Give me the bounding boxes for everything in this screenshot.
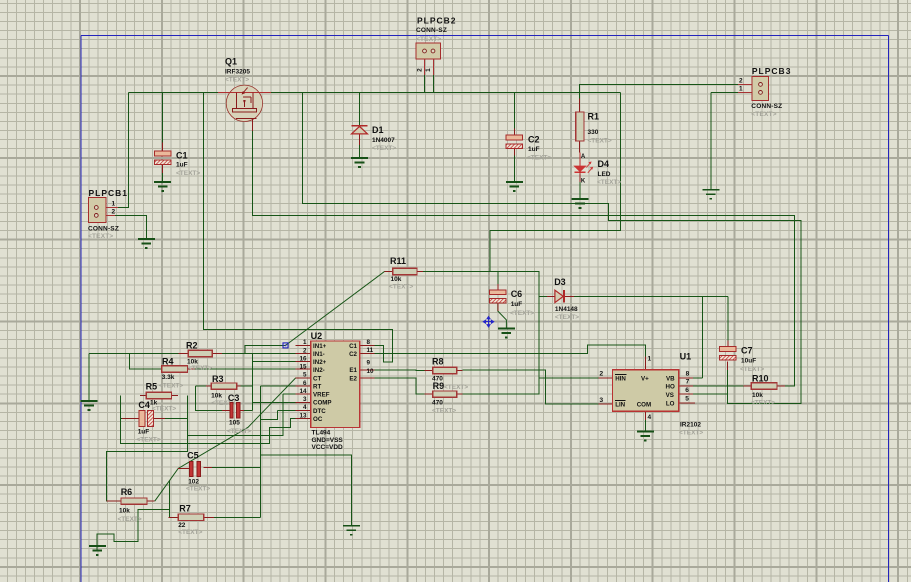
capacitor C4 bbox=[139, 411, 153, 427]
wire bbox=[513, 156, 515, 183]
svg-text:R8: R8 bbox=[432, 356, 444, 366]
svg-text:<TEXT>: <TEXT> bbox=[555, 314, 579, 321]
svg-text:OC: OC bbox=[313, 416, 323, 423]
svg-text:5: 5 bbox=[303, 372, 307, 379]
connector PLPCB1 bbox=[88, 198, 118, 223]
wire bbox=[277, 409, 295, 411]
pin stubs bbox=[107, 99, 785, 518]
wire bbox=[693, 393, 728, 395]
svg-text:DTC: DTC bbox=[313, 408, 326, 415]
svg-text:16: 16 bbox=[299, 356, 307, 363]
svg-text:IRF3205: IRF3205 bbox=[225, 69, 250, 76]
U2 left pin numbers bbox=[299, 339, 307, 419]
svg-text:6: 6 bbox=[685, 387, 689, 394]
svg-text:PLPCB1: PLPCB1 bbox=[89, 188, 129, 198]
svg-text:R11: R11 bbox=[390, 256, 406, 266]
ground bbox=[351, 158, 368, 167]
svg-text:<TEXT>: <TEXT> bbox=[389, 284, 413, 291]
wire bbox=[162, 92, 164, 142]
capacitor C1 bbox=[154, 151, 170, 164]
svg-text:1: 1 bbox=[739, 86, 743, 93]
svg-text:<TEXT>: <TEXT> bbox=[527, 155, 551, 162]
resistor R10 bbox=[751, 383, 777, 389]
svg-text:R5: R5 bbox=[146, 382, 158, 392]
svg-text:1uF: 1uF bbox=[176, 162, 188, 169]
wire bbox=[251, 354, 253, 411]
svg-text:VB: VB bbox=[666, 376, 675, 383]
IC U1 (IR2102) bbox=[613, 370, 679, 411]
svg-text:1: 1 bbox=[648, 356, 652, 363]
resistor R9 bbox=[433, 391, 457, 397]
svg-text:105: 105 bbox=[229, 419, 240, 426]
wire bbox=[196, 386, 222, 410]
svg-text:<TEXT>: <TEXT> bbox=[178, 529, 202, 536]
svg-text:2: 2 bbox=[739, 77, 743, 84]
svg-text:A: A bbox=[581, 154, 586, 160]
wire bbox=[261, 455, 352, 526]
svg-text:8: 8 bbox=[686, 370, 690, 377]
svg-text:<TEXT>: <TEXT> bbox=[118, 516, 142, 523]
wire bbox=[286, 271, 385, 345]
capacitor C6 bbox=[490, 290, 506, 303]
resistor R4 bbox=[162, 366, 188, 372]
svg-text:10k: 10k bbox=[391, 276, 402, 283]
ground bbox=[81, 401, 98, 410]
wire bbox=[169, 481, 171, 518]
svg-text:1uF: 1uF bbox=[138, 428, 150, 435]
svg-text:R10: R10 bbox=[752, 373, 769, 383]
svg-text:330: 330 bbox=[588, 129, 599, 136]
wire bbox=[165, 417, 188, 419]
svg-text:<TEXT>: <TEXT> bbox=[444, 384, 468, 391]
svg-text:<TEXT>: <TEXT> bbox=[510, 310, 534, 317]
wire bbox=[375, 345, 646, 357]
wire bbox=[89, 353, 179, 355]
wire bbox=[283, 393, 296, 395]
ground bbox=[154, 182, 171, 191]
wire bbox=[727, 370, 729, 394]
wire bbox=[375, 369, 425, 372]
svg-text:C1: C1 bbox=[176, 151, 188, 161]
wire bbox=[252, 361, 295, 363]
svg-text:CONN-SZ: CONN-SZ bbox=[751, 103, 782, 110]
svg-text:K: K bbox=[581, 178, 586, 184]
ground bbox=[343, 526, 360, 535]
wire bbox=[121, 417, 122, 419]
wire bbox=[245, 345, 286, 353]
svg-text:IN1+: IN1+ bbox=[313, 343, 327, 350]
svg-text:PLPCB2: PLPCB2 bbox=[417, 16, 457, 26]
svg-text:7: 7 bbox=[686, 378, 690, 385]
svg-text:1uF: 1uF bbox=[511, 301, 523, 308]
U1 pin numbers bbox=[599, 356, 689, 422]
resistor R7 bbox=[178, 514, 204, 520]
svg-text:COM: COM bbox=[637, 402, 651, 409]
svg-text:D4: D4 bbox=[598, 159, 610, 169]
wire bbox=[359, 92, 361, 125]
PLPCB3 pin numbers bbox=[739, 77, 743, 92]
svg-text:<TEXT>: <TEXT> bbox=[679, 429, 703, 436]
svg-text:<TEXT>: <TEXT> bbox=[159, 383, 183, 390]
svg-text:10k: 10k bbox=[211, 392, 222, 399]
svg-text:LO: LO bbox=[666, 400, 675, 407]
ground bbox=[498, 329, 515, 338]
ground bbox=[637, 432, 654, 441]
svg-text:COMP: COMP bbox=[313, 400, 332, 407]
wire bbox=[498, 303, 507, 329]
wire bbox=[155, 378, 296, 501]
svg-text:C4: C4 bbox=[138, 400, 150, 410]
svg-text:10uF: 10uF bbox=[741, 358, 756, 365]
svg-text:1uF: 1uF bbox=[528, 146, 540, 153]
wire bbox=[115, 215, 146, 239]
wire bbox=[188, 368, 296, 370]
svg-text:10k: 10k bbox=[119, 508, 130, 515]
svg-text:1: 1 bbox=[425, 68, 432, 72]
PLPCB2 pin numbers bbox=[417, 68, 433, 72]
wire bbox=[785, 385, 795, 387]
wire bbox=[128, 91, 620, 93]
svg-text:IN2+: IN2+ bbox=[313, 359, 327, 366]
svg-text:<TEXT>: <TEXT> bbox=[137, 437, 161, 444]
svg-text:470: 470 bbox=[432, 400, 443, 407]
capacitor C5 bbox=[189, 461, 200, 476]
svg-text:D3: D3 bbox=[554, 277, 566, 287]
IC U2 (TL494) bbox=[311, 341, 360, 428]
transistor Q1 bbox=[218, 85, 271, 131]
svg-text:LIN: LIN bbox=[615, 402, 625, 409]
resistor R2 bbox=[188, 350, 212, 356]
wire bbox=[252, 401, 295, 403]
wire bbox=[359, 145, 361, 158]
svg-text:14: 14 bbox=[299, 388, 307, 395]
svg-text:C2: C2 bbox=[349, 351, 357, 358]
svg-text:<TEXT>: <TEXT> bbox=[751, 111, 776, 118]
ground bbox=[572, 199, 589, 208]
wire bbox=[423, 271, 539, 378]
svg-text:3: 3 bbox=[599, 397, 603, 404]
node U2 pin 1 (blue square) bbox=[283, 343, 288, 348]
wire bbox=[240, 385, 252, 387]
svg-text:Q1: Q1 bbox=[225, 57, 237, 67]
svg-text:<TEXT>: <TEXT> bbox=[740, 366, 764, 373]
svg-text:CONN-SZ: CONN-SZ bbox=[88, 225, 119, 232]
ground bbox=[89, 546, 106, 555]
svg-text:VCC=VDD: VCC=VDD bbox=[312, 444, 344, 451]
svg-text:R1: R1 bbox=[588, 112, 600, 122]
svg-text:R7: R7 bbox=[179, 503, 191, 513]
svg-text:IN1-: IN1- bbox=[313, 351, 325, 358]
svg-text:E2: E2 bbox=[349, 375, 357, 382]
U1 pin names bbox=[615, 375, 675, 409]
svg-text:TL494: TL494 bbox=[312, 430, 331, 437]
wire bbox=[463, 370, 599, 404]
wire bbox=[580, 84, 738, 92]
svg-text:CT: CT bbox=[313, 375, 321, 382]
svg-text:IN2-: IN2- bbox=[313, 367, 325, 374]
svg-text:LED: LED bbox=[598, 171, 611, 178]
wire bbox=[644, 420, 646, 432]
svg-text:3.3k: 3.3k bbox=[162, 374, 175, 381]
svg-text:13: 13 bbox=[299, 412, 307, 419]
wire bbox=[513, 92, 515, 128]
svg-text:<TEXT>: <TEXT> bbox=[225, 77, 249, 84]
resistor R1 bbox=[576, 112, 584, 141]
svg-text:C2: C2 bbox=[528, 135, 540, 145]
svg-text:R4: R4 bbox=[162, 356, 174, 366]
svg-text:8: 8 bbox=[367, 339, 371, 346]
svg-text:C3: C3 bbox=[228, 393, 240, 403]
svg-text:2: 2 bbox=[303, 347, 307, 354]
svg-text:2: 2 bbox=[599, 370, 603, 377]
svg-text:10: 10 bbox=[367, 368, 375, 375]
capacitor C2 bbox=[506, 135, 522, 148]
capacitor C7 bbox=[720, 347, 736, 360]
wire bbox=[188, 394, 284, 435]
wire bbox=[303, 92, 802, 403]
node marker (blue cross) bbox=[483, 317, 493, 327]
wire bbox=[196, 385, 207, 387]
svg-text:<TEXT>: <TEXT> bbox=[186, 486, 210, 493]
svg-text:PLPCB3: PLPCB3 bbox=[752, 66, 792, 76]
svg-text:D1: D1 bbox=[372, 125, 384, 135]
wire bbox=[88, 354, 90, 402]
wire bbox=[701, 296, 703, 378]
svg-text:<TEXT>: <TEXT> bbox=[188, 365, 212, 372]
svg-text:VS: VS bbox=[666, 392, 674, 399]
svg-text:U2: U2 bbox=[311, 331, 323, 341]
wire bbox=[244, 409, 253, 411]
wire bbox=[121, 396, 296, 444]
diode D1 bbox=[352, 126, 368, 134]
wire bbox=[693, 385, 743, 387]
svg-text:R6: R6 bbox=[121, 487, 133, 497]
wire bbox=[433, 75, 435, 92]
wire bbox=[261, 385, 296, 387]
svg-text:<TEXT>: <TEXT> bbox=[751, 400, 775, 407]
svg-text:2: 2 bbox=[112, 209, 116, 216]
U2 right pin names bbox=[349, 343, 357, 383]
wire bbox=[118, 92, 128, 207]
svg-text:C6: C6 bbox=[511, 289, 523, 299]
resistor R5 bbox=[146, 392, 171, 398]
wire bbox=[490, 92, 621, 271]
svg-text:HIN: HIN bbox=[615, 376, 626, 383]
svg-text:IR2102: IR2102 bbox=[680, 421, 701, 428]
U2 right pin numbers bbox=[367, 339, 375, 375]
resistor R11 bbox=[393, 268, 417, 274]
svg-text:GND=VSS: GND=VSS bbox=[312, 437, 344, 444]
wire bbox=[539, 295, 547, 297]
wire bbox=[129, 354, 161, 370]
svg-text:<TEXT>: <TEXT> bbox=[372, 145, 396, 152]
svg-text:C7: C7 bbox=[741, 346, 753, 356]
svg-text:11: 11 bbox=[367, 347, 374, 354]
svg-text:1: 1 bbox=[112, 200, 116, 207]
svg-text:C1: C1 bbox=[349, 343, 357, 350]
U2 left pin names bbox=[313, 343, 332, 423]
wire bbox=[261, 410, 278, 419]
wire bbox=[710, 92, 712, 189]
svg-text:R2: R2 bbox=[186, 340, 198, 350]
svg-text:E1: E1 bbox=[349, 367, 357, 374]
wire bbox=[375, 378, 425, 394]
svg-text:1N4148: 1N4148 bbox=[555, 306, 578, 313]
svg-text:102: 102 bbox=[188, 478, 199, 485]
wire bbox=[97, 510, 170, 551]
wire bbox=[574, 295, 728, 297]
svg-text:1N4007: 1N4007 bbox=[372, 137, 395, 144]
wire bbox=[693, 377, 702, 379]
svg-text:10k: 10k bbox=[752, 392, 763, 399]
wire bbox=[203, 92, 392, 362]
capacitor C3 bbox=[230, 403, 240, 419]
wire bbox=[107, 396, 188, 502]
wire bbox=[727, 296, 729, 340]
svg-text:C5: C5 bbox=[187, 451, 199, 461]
svg-text:4: 4 bbox=[303, 404, 307, 411]
wire bbox=[260, 386, 262, 517]
wire bbox=[497, 271, 499, 284]
ground bbox=[702, 190, 719, 199]
diode D3 bbox=[555, 290, 564, 302]
connector PLPCB2 bbox=[416, 43, 441, 75]
svg-text:6: 6 bbox=[303, 380, 307, 387]
svg-text:22: 22 bbox=[178, 522, 186, 529]
svg-text:U1: U1 bbox=[680, 352, 692, 362]
wire bbox=[711, 91, 738, 93]
ground bbox=[506, 182, 523, 191]
svg-text:<TEXT>: <TEXT> bbox=[176, 170, 200, 177]
svg-text:1: 1 bbox=[303, 339, 307, 346]
svg-text:<TEXT>: <TEXT> bbox=[88, 233, 113, 240]
resistor R8 bbox=[433, 367, 457, 373]
svg-text:<TEXT>: <TEXT> bbox=[416, 36, 441, 43]
svg-text:3: 3 bbox=[303, 396, 307, 403]
wire bbox=[222, 353, 296, 355]
svg-text:R9: R9 bbox=[433, 381, 445, 391]
connector PLPCB3 bbox=[738, 76, 769, 100]
svg-text:RT: RT bbox=[313, 384, 321, 391]
wire bbox=[463, 378, 599, 394]
PLPCB1 pin numbers bbox=[112, 200, 116, 215]
svg-text:2: 2 bbox=[417, 68, 424, 72]
svg-text:CONN-SZ: CONN-SZ bbox=[416, 27, 447, 34]
svg-text:4: 4 bbox=[648, 414, 652, 421]
wire bbox=[162, 164, 164, 182]
svg-text:R3: R3 bbox=[212, 374, 224, 384]
wire bbox=[253, 131, 795, 386]
wire bbox=[212, 467, 261, 469]
wire bbox=[579, 182, 581, 199]
svg-text:5: 5 bbox=[685, 395, 689, 402]
svg-text:<TEXT>: <TEXT> bbox=[152, 406, 176, 413]
svg-text:VREF: VREF bbox=[313, 392, 330, 399]
svg-text:V+: V+ bbox=[641, 376, 649, 383]
svg-text:<TEXT>: <TEXT> bbox=[227, 428, 251, 435]
svg-text:HO: HO bbox=[666, 384, 675, 391]
svg-text:<TEXT>: <TEXT> bbox=[432, 407, 456, 414]
resistor R6 bbox=[121, 498, 147, 504]
wire bbox=[424, 75, 426, 92]
wire bbox=[214, 516, 261, 518]
svg-text:<TEXT>: <TEXT> bbox=[588, 137, 612, 144]
LED D4 bbox=[574, 153, 593, 175]
svg-text:<TEXT>: <TEXT> bbox=[597, 179, 621, 186]
resistor R3 bbox=[211, 383, 237, 389]
svg-text:15: 15 bbox=[299, 364, 307, 371]
wire bbox=[579, 92, 581, 98]
ground bbox=[138, 239, 155, 248]
svg-text:9: 9 bbox=[367, 360, 371, 367]
